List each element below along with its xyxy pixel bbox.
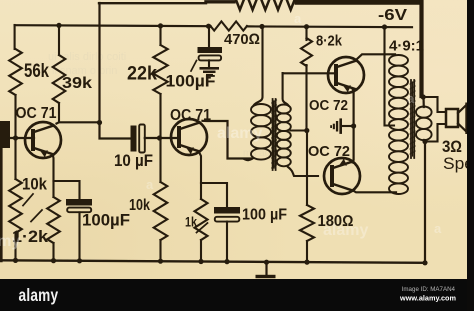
right edge strip	[467, 0, 474, 311]
wire: emitter branch to C3	[201, 183, 227, 208]
transformer T1 primary lead	[254, 26, 263, 106]
svg-text:100µF: 100µF	[82, 212, 130, 230]
resistor R-feedback (value cut off at top edge)	[235, 0, 297, 10]
node A: Q1 collector / feedback junction	[97, 120, 102, 125]
capacitor C2 10uF coupling	[131, 126, 137, 152]
wire: T1 secondary top to Q3 base	[283, 72, 336, 74]
wire: 10k to bus	[14, 233, 16, 261]
svg-text:22k: 22k	[127, 64, 157, 85]
wire: feedback drop to speaker node	[419, 1, 423, 96]
wire: ground bus	[1, 260, 425, 263]
transistor Q2 OC71	[171, 119, 207, 155]
wire: Q3 collector to T2 primary top	[358, 54, 396, 58]
wire: rail bend to 56k	[14, 25, 16, 49]
pointer slash for 10k label	[23, 194, 33, 206]
speaker LS1	[446, 109, 458, 127]
resistor R6 10k	[154, 182, 168, 240]
svg-text:www.alamy.com: www.alamy.com	[399, 294, 456, 303]
svg-text:Image ID: MA7AN4: Image ID: MA7AN4	[402, 286, 456, 293]
wire: secondary bottom to ground bus	[424, 142, 426, 262]
pointer slash for 1.2k label	[31, 210, 42, 222]
resistor R10 180R	[300, 205, 314, 241]
resistor R4 1.2k	[47, 197, 60, 243]
svg-text:a: a	[434, 221, 442, 236]
wire: cap to Q2 base	[145, 137, 179, 139]
wire: base node to 10k (R6)	[159, 138, 161, 182]
svg-text:OC 71: OC 71	[16, 105, 57, 122]
svg-text:470Ω: 470Ω	[224, 31, 260, 48]
transformer T1 centre tap	[291, 129, 308, 131]
svg-text:100 µF: 100 µF	[242, 207, 287, 224]
wire: emitter branch to C1	[54, 181, 80, 200]
wire: rail to 39k	[56, 23, 61, 28]
transformer T1 core	[272, 99, 274, 170]
wire: Q2 collector to interstage transformer primary	[203, 121, 253, 159]
wire: rail to 22k	[158, 23, 163, 28]
resistor R8 470R (in rail)	[211, 21, 248, 30]
wire: tap node to 180R	[306, 131, 308, 206]
transformer T2 primary coil	[389, 55, 408, 66]
input terminal	[0, 121, 10, 148]
transformer T1 secondary coil	[277, 105, 291, 114]
svg-text:3Ω: 3Ω	[442, 138, 462, 156]
node: 470R right / transformer feed	[259, 24, 264, 29]
transformer T1 primary bottom lead	[245, 158, 254, 160]
wire: 8.2k to tap node	[305, 65, 307, 131]
ground symbol on bus	[265, 262, 267, 275]
pointer slash for 1k label	[197, 223, 208, 233]
svg-text:4·9:1: 4·9:1	[389, 38, 424, 55]
wire: input to Q1 base	[10, 137, 34, 139]
wire: -6V supply rail	[15, 25, 211, 26]
node: secondary top / feedback	[422, 94, 424, 107]
svg-text:alamy: alamy	[19, 286, 59, 305]
wire: 22k to Q2 base node	[159, 94, 161, 138]
wire: base node to 10k	[14, 138, 16, 179]
transformer T1 secondary top lead	[283, 73, 289, 106]
wire: feedback line top-left segment	[99, 2, 206, 4]
wire: 39k to collector	[58, 103, 60, 122]
wire: speaker bottom lead	[425, 124, 446, 142]
node: bias tap junction	[304, 128, 309, 133]
wire: Q3 emitter to common node	[352, 90, 355, 127]
wire: input lead to ground bus (left edge)	[0, 148, 3, 261]
faint print-through ghost text	[48, 51, 270, 159]
capacitor C4 100uF decoupling	[208, 26, 210, 47]
alamy watermarks (decorative)	[0, 11, 442, 250]
svg-text:a: a	[146, 177, 154, 192]
svg-text:39k: 39k	[62, 75, 92, 92]
wire: feedback vertical to Q1 collector	[98, 3, 100, 123]
svg-text:alamy: alamy	[0, 233, 20, 250]
wire: Q4 collector to T2 primary bottom	[354, 191, 397, 193]
transistor Q3 OC72	[328, 57, 364, 93]
capacitor C3 100uF (emitter bypass)	[214, 207, 240, 214]
resistor R2 10k	[9, 179, 22, 233]
wire: node A to coupling cap	[100, 123, 131, 139]
svg-text:10k: 10k	[129, 197, 150, 214]
capacitor C1 100uF (emitter bypass)	[66, 199, 92, 206]
svg-text:alamy: alamy	[323, 222, 368, 239]
node: decoupling junction	[206, 24, 211, 29]
transistor Q4 OC72	[324, 158, 360, 194]
svg-text:10 µF: 10 µF	[114, 152, 153, 170]
svg-text:10k: 10k	[22, 175, 47, 194]
resistor R9 8.2k	[301, 38, 312, 66]
wire: common node to Q4 emitter	[352, 126, 355, 163]
wire: speaker top lead	[423, 97, 446, 112]
svg-text:1k: 1k	[185, 214, 197, 230]
bottom banner	[0, 279, 474, 311]
svg-text:56k: 56k	[24, 61, 49, 82]
resistor R7 1k	[195, 199, 208, 240]
resistor R5 22k	[153, 45, 167, 94]
ground (sideways) at emitter node	[341, 125, 353, 127]
svg-text:OC 72: OC 72	[308, 143, 350, 160]
ground under C4	[200, 67, 220, 70]
wire: Q2 emitter	[200, 153, 202, 199]
pointer slash for C4 label	[191, 61, 197, 72]
transformer T2 secondary coil	[416, 107, 432, 118]
svg-text:alamy: alamy	[217, 125, 262, 142]
transformer T2 core	[410, 80, 412, 158]
transformer T2 centre tap wire	[382, 24, 387, 29]
node B: Q2 base junction	[157, 135, 162, 140]
resistor R1 56k	[9, 49, 22, 95]
wire: Q1 emitter	[52, 156, 55, 197]
transformer T1 primary coil	[251, 104, 271, 115]
svg-text:a: a	[294, 11, 302, 26]
svg-text:-6V: -6V	[378, 7, 407, 24]
wire: 56k to base node	[14, 95, 16, 138]
transistor Q1 OC71	[25, 122, 61, 158]
wire: rail to 8.2k	[304, 24, 309, 29]
svg-text:a: a	[407, 91, 415, 106]
svg-text:100µF: 100µF	[166, 73, 216, 91]
node: secondary bottom	[424, 140, 425, 142]
node: emitter common junction	[351, 123, 356, 128]
svg-text:8·2k: 8·2k	[316, 34, 343, 50]
svg-text:OC 72: OC 72	[309, 98, 348, 114]
transformer T1 secondary bottom lead	[288, 167, 318, 176]
wire: Q1 collector to node A	[57, 122, 100, 123]
wire: feedback line top-right thick segment	[297, 0, 420, 5]
node: Q1 base junction	[13, 135, 18, 140]
svg-text:OC 71: OC 71	[170, 107, 211, 124]
resistor R3 39k (Q1 collector load)	[53, 55, 66, 103]
